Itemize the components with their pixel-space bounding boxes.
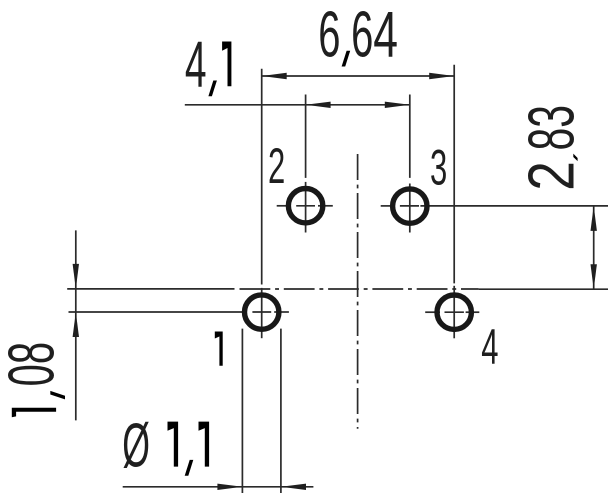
dimension line 1,08 vertical xyxy=(75,230,77,420)
svg-text:6: 6 xyxy=(351,0,373,71)
svg-text:2: 2 xyxy=(514,161,587,191)
centerline vertical dash-dot xyxy=(357,154,359,429)
arrow 6,64 right xyxy=(429,73,454,79)
hole4 crosshair vertical xyxy=(453,286,455,339)
hole 2 circle xyxy=(288,189,322,223)
dimension text 1,08 rotated xyxy=(12,408,56,418)
hole 3 circle xyxy=(393,189,427,223)
extension line hole1 vertical xyxy=(261,69,263,285)
arrow 6,64 left xyxy=(262,73,287,79)
arrow 2,83 lower (points down) xyxy=(591,264,597,289)
extension line hole4 vertical xyxy=(453,65,455,284)
hole2 crosshair horizontal xyxy=(277,205,291,207)
svg-text:3: 3 xyxy=(430,139,447,195)
arrow 4,1 right xyxy=(385,102,410,108)
arrow 4,1 left xyxy=(306,102,331,108)
dimension line 2,83 vertical xyxy=(593,206,595,289)
arrow diameter 1,1 left (points right) xyxy=(217,484,242,490)
extension line hole1 right edge vertical xyxy=(280,329,282,493)
svg-text:6: 6 xyxy=(318,0,340,71)
arrow 2,83 upper (points up) xyxy=(591,206,597,231)
hole3 crosshair vertical xyxy=(409,184,411,233)
hole 4 circle xyxy=(437,295,471,329)
hole1 crosshair horizontal + extension line 1,08 lower xyxy=(69,311,248,313)
extension line hole2 vertical xyxy=(305,95,307,178)
extension line 1,08 upper xyxy=(67,288,234,290)
hole4 crosshair horizontal xyxy=(425,311,440,313)
hole label 1 xyxy=(215,332,223,366)
svg-text:Ø: Ø xyxy=(122,410,150,480)
hole 1 circle xyxy=(245,295,279,329)
hole1 crosshair vertical xyxy=(261,288,263,338)
svg-text:08: 08 xyxy=(0,342,68,387)
svg-text:4: 4 xyxy=(373,0,398,71)
svg-text:2: 2 xyxy=(268,137,285,193)
dimension line 6,64 xyxy=(262,75,455,77)
svg-text:4: 4 xyxy=(185,28,207,101)
hole2 crosshair vertical xyxy=(305,182,307,233)
arrow 1,08 upper (points down) xyxy=(73,264,79,289)
extension line 2,83 lower right of hole4 xyxy=(479,288,608,290)
extension line hole1 left edge vertical xyxy=(241,329,243,493)
extension line hole3 vertical xyxy=(409,95,411,178)
dimension line diameter 1,1 xyxy=(123,486,314,488)
dimension line 4,1 xyxy=(185,104,410,106)
centerline horizontal dash-dot xyxy=(240,288,479,290)
svg-text:4: 4 xyxy=(481,318,498,374)
arrow diameter 1,1 right (points left) xyxy=(281,484,306,490)
hole3 crosshair horizontal + extension line 2,83 upper xyxy=(381,205,395,207)
arrow 1,08 lower (points up) xyxy=(73,312,79,337)
svg-text:83: 83 xyxy=(515,105,588,151)
